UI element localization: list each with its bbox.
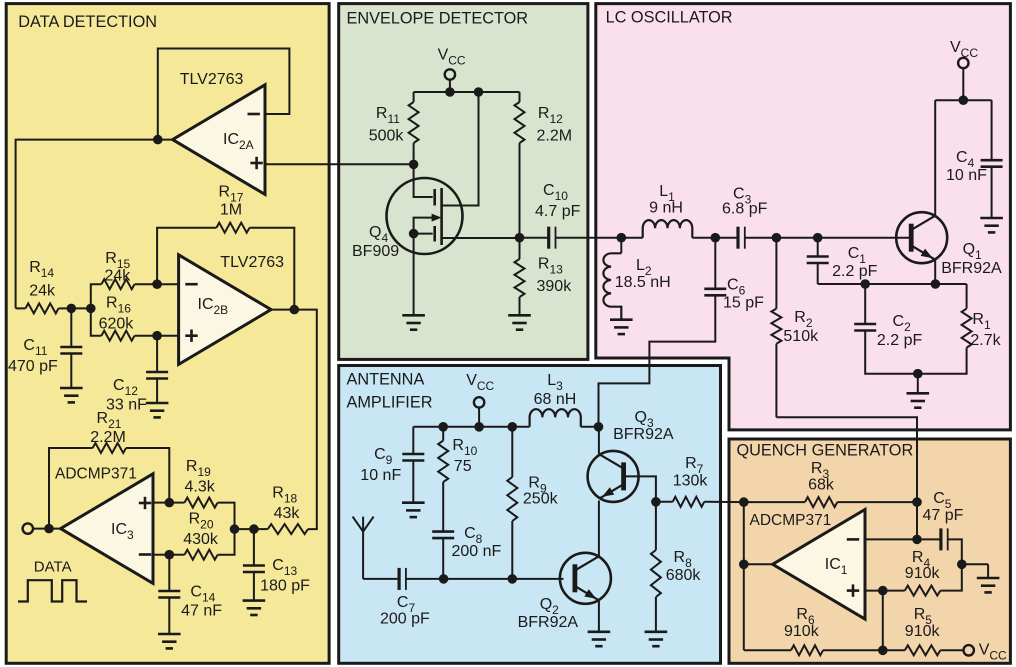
node R11/gate2 junction [409, 160, 419, 170]
inductor L1 9 nH [621, 183, 715, 238]
wire emitter lower rail [818, 283, 967, 285]
svg-text:10 nF: 10 nF [360, 467, 401, 484]
capacitor C2 2.2 pF [854, 284, 922, 374]
wire R3 node down to minus input [916, 502, 918, 539]
svg-text:500k: 500k [369, 128, 405, 145]
svg-text:1M: 1M [220, 202, 242, 219]
svg-text:6.8 pF: 6.8 pF [722, 201, 768, 218]
op-amp IC2B [179, 254, 285, 364]
resistor R9 250k [507, 427, 558, 579]
node plus input junction [878, 586, 888, 596]
envelope detector block (green) [339, 4, 588, 360]
wire R9 node to Q2 base [512, 578, 563, 580]
resistor R14 24k [16, 259, 72, 313]
svg-text:130k: 130k [673, 473, 709, 490]
ground C12 [146, 402, 169, 405]
capacitor C9 10 nF [360, 427, 424, 503]
svg-text:470 pF: 470 pF [8, 358, 58, 375]
capacitor C3 6.8 pF [715, 186, 776, 249]
node C6/C3 junction [711, 233, 721, 243]
svg-text:2.2M: 2.2M [90, 429, 126, 446]
resistor R2 510k [771, 238, 819, 418]
svg-text:33 nF: 33 nF [106, 397, 147, 414]
power VCC antenna amplifier [466, 372, 494, 427]
capacitor C10 4.7 pF [520, 182, 581, 249]
svg-text:4.7 pF: 4.7 pF [535, 203, 581, 220]
ground C2/R1 [917, 374, 919, 394]
wire R2 to quench generator [776, 417, 917, 502]
DATA waveform icon [18, 580, 87, 601]
resistor R19 4.3k [169, 458, 234, 529]
resistor R13 390k [515, 238, 573, 316]
wire IC1 minus input [865, 538, 917, 540]
ground R8 [645, 630, 668, 633]
svg-text:4.3k: 4.3k [185, 479, 216, 496]
node C8 junction [439, 574, 449, 584]
node IC3 output junction [44, 524, 54, 534]
svg-text:BF909: BF909 [352, 243, 399, 260]
svg-text:250k: 250k [523, 491, 559, 508]
svg-text:2.2M: 2.2M [537, 128, 573, 145]
data detection block (yellow) [6, 4, 329, 664]
capacitor C14 47 nF [158, 555, 222, 634]
wire Q4 source ground lead [413, 234, 415, 316]
svg-text:ENVELOPE DETECTOR: ENVELOPE DETECTOR [347, 9, 529, 27]
resistor R21 2.2M feedback [49, 410, 169, 529]
svg-text:LC OSCILLATOR: LC OSCILLATOR [606, 8, 733, 26]
transistor Q3 BFR92A [588, 409, 674, 502]
capacitor C7 200 pF [363, 568, 444, 628]
wire R15 node to IC2B inverting input [157, 283, 179, 285]
svg-text:AMPLIFIER: AMPLIFIER [347, 394, 433, 412]
node L3/Q3 collector junction [594, 422, 604, 432]
svg-text:ANTENNA: ANTENNA [347, 371, 425, 389]
ground C5 [962, 563, 988, 565]
node R3/R7 junction [739, 497, 749, 507]
resistor R12 2.2M [515, 92, 573, 238]
svg-text:200 pF: 200 pF [380, 611, 430, 628]
power VCC quench [964, 642, 1008, 663]
resistor R16 620k [91, 295, 157, 341]
resistor R4 910k [883, 549, 962, 596]
resistor R11 500k [369, 92, 419, 164]
svg-text:10 nF: 10 nF [946, 167, 987, 184]
ground C9 [402, 501, 425, 504]
wire IC2B output down to R18 [271, 310, 317, 529]
node gate1/ground junction [409, 229, 419, 239]
inductor L3 68 nH [530, 372, 599, 427]
wire output feedback column [743, 502, 745, 650]
antenna amplifier block (blue) [339, 366, 721, 664]
terminal DATA output [23, 523, 33, 533]
ground R13 [508, 314, 531, 317]
wire C1 node to Q1 base [818, 237, 911, 239]
ground L2 [610, 318, 633, 321]
wire R18 node to R19/R20 node [235, 528, 254, 530]
svg-text:2.7k: 2.7k [970, 332, 1001, 349]
resistor R6 910k [744, 606, 883, 655]
node R14/C11 junction [67, 304, 77, 314]
node R19/R20 junction [230, 524, 240, 534]
svg-text:680k: 680k [666, 567, 702, 584]
svg-text:68 nH: 68 nH [534, 391, 577, 408]
LC oscillator block (pink) [596, 4, 1011, 430]
svg-text:390k: 390k [537, 278, 573, 295]
transistor Q4 BF909 [352, 92, 520, 260]
node IC2B noninverting input junction [152, 331, 162, 341]
svg-text:68k: 68k [808, 477, 835, 494]
capacitor C13 180 pF [243, 529, 310, 601]
ground C11 [60, 387, 83, 390]
ground Q4 [402, 314, 425, 317]
svg-text:430k: 430k [183, 531, 219, 548]
svg-text:620k: 620k [99, 316, 135, 333]
node VCC stem junction [445, 87, 455, 97]
wire plus node down [882, 591, 884, 651]
node VCC stem junction Q1 [959, 95, 969, 105]
capacitor C11 470 pF [8, 308, 82, 388]
resistor R18 43k [254, 485, 308, 535]
wire R16 node to IC2B noninverting input [157, 335, 179, 337]
resistor R1 2.7k [918, 284, 1002, 374]
node drain branch junction [474, 87, 484, 97]
svg-text:DATA DETECTION: DATA DETECTION [18, 13, 157, 31]
comparator IC1 ADCMP371 [750, 510, 866, 620]
wire R14 node to R15/R16 node [71, 307, 91, 309]
svg-text:ADCMP371: ADCMP371 [55, 466, 137, 483]
svg-text:24k: 24k [105, 268, 132, 285]
svg-text:910k: 910k [784, 623, 820, 640]
comparator IC3 ADCMP371 [55, 466, 153, 584]
node R9 junction [508, 422, 518, 432]
wire VCC rail [414, 91, 520, 93]
resistor R3 68k [744, 460, 917, 507]
node C9 corner [412, 426, 414, 428]
node C5/R4 junction [957, 560, 967, 570]
node VCC stem junction blue [474, 422, 484, 432]
wire IC3 minus input [154, 554, 169, 556]
resistor R5 910k [883, 606, 964, 655]
svg-text:TLV2763: TLV2763 [220, 254, 284, 271]
svg-text:18.5 nH: 18.5 nH [615, 274, 671, 291]
wire VCC rail blue [413, 426, 529, 428]
svg-text:DATA: DATA [34, 559, 72, 576]
capacitor C5 47 pF [917, 490, 964, 564]
svg-text:BFR92A: BFR92A [941, 260, 1002, 277]
node minus input junction [912, 535, 922, 545]
svg-text:180 pF: 180 pF [260, 578, 310, 595]
svg-text:ADCMP371: ADCMP371 [750, 512, 832, 529]
wire IC3 output [32, 528, 60, 530]
node bottom rail junction [878, 646, 888, 656]
svg-text:24k: 24k [29, 283, 56, 300]
power VCC envelope detector [438, 47, 466, 93]
ground Q2 [588, 630, 611, 633]
svg-text:9 nH: 9 nH [649, 200, 683, 217]
node R18/C13 junction [249, 524, 259, 534]
node C1 junction [813, 233, 823, 243]
svg-text:BFR92A: BFR92A [518, 614, 579, 631]
resistor R15 24k [91, 250, 157, 308]
svg-text:2.2 pF: 2.2 pF [877, 332, 923, 349]
node L1/L2 junction [617, 233, 627, 243]
wire R2 node to C1 node [776, 237, 817, 239]
node IC3 plus input junction [165, 498, 175, 508]
svg-text:910k: 910k [905, 565, 941, 582]
resistor R7 130k [656, 455, 744, 507]
capacitor C12 33 nF [106, 336, 168, 414]
transistor Q1 BFR92A [896, 100, 1002, 284]
node R7/R8 junction [651, 497, 661, 507]
quench generator block (orange) [729, 439, 1010, 663]
node IC2B output junction [290, 305, 300, 315]
svg-text:BFR92A: BFR92A [613, 426, 674, 443]
capacitor C1 2.2 pF [807, 238, 878, 284]
node IC3 minus input junction [165, 550, 175, 560]
inductor L2 18.5 nH [603, 238, 670, 320]
power VCC LC oscillator [950, 39, 978, 100]
ground C13 [243, 599, 266, 602]
svg-text:910k: 910k [905, 623, 941, 640]
svg-text:QUENCH GENERATOR: QUENCH GENERATOR [737, 442, 914, 460]
capacitor C6 15 pF [704, 238, 764, 312]
svg-text:2.2 pF: 2.2 pF [832, 263, 878, 280]
node ground junction C2/R1 [913, 369, 923, 379]
transistor Q2 BFR92A [518, 501, 611, 632]
resistor R10 75 [438, 427, 477, 532]
wire IC2A feedback loop output to inverting input [158, 49, 290, 140]
resistor R20 430k [169, 511, 234, 560]
wire C6 to antenna amplifier output node [599, 295, 716, 427]
antenna [353, 517, 374, 579]
svg-text:47 pF: 47 pF [923, 507, 964, 524]
svg-text:43k: 43k [274, 505, 301, 522]
node C2 junction [860, 279, 870, 289]
capacitor C8 200 nF [432, 525, 501, 579]
node Q1 emitter junction [931, 279, 941, 289]
op-amp IC2A [173, 71, 265, 194]
wire IC3 plus input [154, 502, 169, 504]
wire C8 node to R9 node [444, 578, 513, 580]
node R12/R13/C10/source junction [515, 233, 525, 243]
node IC1 output junction [739, 560, 749, 570]
wire VCC rail Q1 [935, 99, 991, 101]
wire IC2A output to R14 [16, 140, 173, 309]
wire IC2A noninverting input to envelope detector [265, 163, 414, 165]
node R15/R16 branch junction [86, 304, 96, 314]
wire IC1 plus input [865, 590, 883, 592]
node R9 lower junction [508, 574, 518, 584]
wire Q3 base to R7 node [623, 476, 656, 501]
capacitor C4 10 nF [946, 100, 1003, 218]
svg-text:47 nF: 47 nF [181, 603, 222, 620]
resistor R8 680k [651, 502, 701, 632]
wire IC1 output [744, 563, 773, 565]
node R10 junction [438, 422, 448, 432]
svg-text:75: 75 [454, 458, 472, 475]
node IC2A output junction [153, 135, 163, 145]
svg-text:510k: 510k [783, 328, 819, 345]
svg-text:15 pF: 15 pF [723, 295, 764, 312]
resistor R17 1M feedback [157, 184, 294, 310]
ground C14 [158, 633, 181, 636]
wire C10 to LC tank [556, 237, 622, 239]
svg-text:TLV2763: TLV2763 [180, 71, 244, 88]
node IC2B inverting input junction [152, 279, 162, 289]
svg-text:200 nF: 200 nF [452, 543, 502, 560]
node R2 junction [772, 233, 782, 243]
node R3/C5/minus junction [912, 497, 922, 507]
ground C4 [980, 217, 1003, 220]
